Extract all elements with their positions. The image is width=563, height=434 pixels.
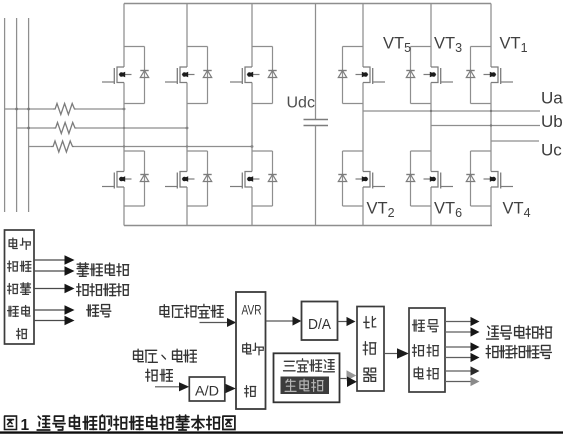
label ge-li-qu-dong-dian-lu vertical <box>413 320 439 380</box>
arrow from MCU box #1 <box>34 259 65 261</box>
label zheng-liu-dian-lu (rectifier circuit) <box>77 263 129 277</box>
drive output arrow #1 <box>445 321 471 323</box>
block: D/A converter <box>302 302 338 341</box>
freewheeling diode DV5 <box>338 47 346 104</box>
inverter bridge leg at x=491 upper wire <box>490 4 492 68</box>
inverter bridge leg at x=363 middle wire <box>362 83 364 172</box>
block: MCU-controlled rectifier circuit (vertical box) <box>5 230 35 344</box>
inverter bridge leg at x=363 upper wire <box>362 4 364 68</box>
arrowhead into comparator lower <box>347 377 357 388</box>
wire R2 to rectifier leg 2 <box>77 127 188 129</box>
node A1 <box>15 108 18 111</box>
bottom rule <box>0 431 563 433</box>
resistor R1 <box>53 104 76 115</box>
freewheeling diode D5 <box>203 151 211 206</box>
freewheeling diode DV2 <box>338 151 346 206</box>
rectifier bridge leg at x=187 upper wire <box>186 4 188 68</box>
output wire Uc <box>491 140 539 142</box>
freewheeling diode D4 <box>140 151 148 206</box>
label bi-jiao-qi vertical <box>363 317 376 382</box>
inverter bridge leg at x=431 lower wire <box>430 187 432 226</box>
block: triangle wave generator (san-jiao-bo-fa-sheng-dian-lu) <box>274 353 340 402</box>
caption: Fig.1 basic block diagram of inverter power supply hardware <box>5 416 17 429</box>
label jian-ce (detection) <box>146 369 173 381</box>
transistor Q6 (rectifier bottom-right) <box>230 151 273 206</box>
transistor VT2 <box>343 151 386 206</box>
rectifier bridge leg at x=187 middle wire <box>186 83 188 172</box>
inverter bridge leg at x=431 upper wire <box>430 4 432 68</box>
three-phase input line A (leftmost vertical) <box>4 18 6 212</box>
wire R1 to rectifier leg 1 <box>76 108 124 110</box>
arrowhead into A/D <box>179 382 189 391</box>
node B1 <box>27 127 30 130</box>
arrowhead ghost (grey) into comparator <box>347 370 357 380</box>
rectifier bridge leg at x=187 lower wire <box>186 187 188 226</box>
node C2 <box>186 145 188 147</box>
output wire Ub <box>431 125 540 127</box>
wire detection to A/D <box>155 386 179 388</box>
wire R3 to rectifier leg 3 <box>74 146 252 148</box>
arrowhead A/D to AVR <box>226 384 236 393</box>
wire AVR to D/A <box>266 320 293 322</box>
negative DC bus rail (bottom) <box>124 225 492 227</box>
freewheeling diode D6 <box>268 151 276 206</box>
label ni-bian-dian-lu-qu (inverter circuit drive) line1 <box>487 325 552 339</box>
drive output arrow #2 <box>445 331 471 333</box>
inverter bridge leg at x=363 lower wire <box>362 187 364 226</box>
block: isolation drive circuit (ge-li-qu-dong-dian-lu) <box>409 308 445 392</box>
label ji (machine) <box>245 386 256 397</box>
svg-text:Ub: Ub <box>541 112 563 131</box>
rectifier bridge leg at x=124 upper wire <box>123 4 125 68</box>
inverter bridge leg at x=431 middle wire <box>430 83 432 172</box>
drive output arrow #5 <box>445 370 471 372</box>
svg-text:D/A: D/A <box>308 317 331 333</box>
node Ua-leg3 crossing <box>490 110 492 112</box>
DC-link capacitor C1 upper wire <box>315 4 317 120</box>
transistor VT3 <box>411 47 454 104</box>
wire D/A to comparator <box>338 321 347 323</box>
transistor VT4 <box>471 151 514 206</box>
resistor R3 <box>51 141 74 152</box>
node Ua-leg2 crossing <box>430 110 432 112</box>
svg-text:Udc: Udc <box>287 95 315 112</box>
transistor Q2 (rectifier top-middle) <box>165 47 208 104</box>
block: comparator (bi-jiao-qi) <box>357 307 384 392</box>
output wire Ua <box>363 110 540 112</box>
label dong-mai-chong-xin-hao line2 <box>486 345 551 358</box>
block: A/D converter <box>189 377 225 401</box>
highlighted label sheng-dian-lu <box>281 377 330 395</box>
svg-text:A/D: A/D <box>195 383 219 399</box>
wire voltage-reference to AVR <box>200 322 228 324</box>
wire phase B to resistor R2 <box>17 127 54 129</box>
node Ub-leg3 crossing <box>490 124 492 126</box>
freewheeling diode DV6 <box>406 151 414 206</box>
arrow from MCU box #5 <box>34 320 65 322</box>
three-phase input line C <box>28 18 30 212</box>
arrow from MCU box #3 <box>34 288 65 290</box>
svg-text:Uc: Uc <box>541 141 562 160</box>
block: AVR microcontroller <box>236 292 266 409</box>
capacitor C1 plates <box>304 119 329 121</box>
transistor Q5 (rectifier bottom-middle) <box>165 151 208 206</box>
node A3 <box>123 108 126 111</box>
arrow from MCU box #2 <box>34 270 65 272</box>
inverter bridge leg at x=491 lower wire <box>490 187 492 226</box>
wire phase C to resistor R3 <box>29 146 51 148</box>
label dian-ya-dian-liu (voltage current) <box>134 349 197 362</box>
arrowhead into isolation driver <box>397 348 409 359</box>
positive DC bus rail (top) <box>124 3 491 5</box>
rectifier bridge leg at x=252 lower wire <box>251 187 253 226</box>
label xin-hao (signal) <box>87 305 111 317</box>
freewheeling diode D3 <box>268 47 276 104</box>
rectifier bridge leg at x=124 lower wire <box>123 187 125 226</box>
freewheeling diode D2 <box>203 47 211 104</box>
node C1 <box>123 145 125 147</box>
transistor Q4 (rectifier bottom-left) <box>102 151 145 206</box>
svg-text:Ua: Ua <box>541 89 563 108</box>
transistor Q3 (rectifier top-right) <box>230 47 273 104</box>
freewheeling diode D1 <box>140 47 148 104</box>
label dian-ya-gei-ding-zhi (voltage reference) <box>160 304 223 318</box>
rectifier bridge leg at x=252 upper wire <box>251 4 253 68</box>
transistor VT6 <box>411 151 454 206</box>
svg-text:AVR: AVR <box>242 303 262 318</box>
transistor VT5 <box>343 47 386 104</box>
transistor Q1 (rectifier top-left) <box>102 47 145 104</box>
wire comparator to isolation driver <box>384 353 397 355</box>
wire phase A to resistor R1 <box>5 108 53 110</box>
node B3 <box>186 127 189 130</box>
arrowhead into comparator <box>347 317 356 326</box>
transistor VT1 <box>471 47 514 104</box>
DC-link capacitor C1 lower wire <box>315 126 317 226</box>
label san-jiao-bo-fa <box>284 359 335 372</box>
freewheeling diode DV4 <box>466 151 474 206</box>
label dan-pian-ji (microcontroller) upper <box>243 343 264 355</box>
node A2 <box>27 108 30 111</box>
rectifier bridge leg at x=252 middle wire <box>251 83 253 172</box>
drive output arrow #6 <box>445 381 471 383</box>
node B2 <box>123 127 125 129</box>
arrowhead into AVR <box>227 318 236 327</box>
drive output arrow #4 <box>445 357 471 359</box>
label qu-dong-mai-chong (drive pulse) <box>77 284 129 296</box>
three-phase input line B <box>16 18 18 212</box>
resistor R2 <box>54 123 77 134</box>
freewheeling diode DV1 <box>466 47 474 104</box>
arrowhead into D/A <box>293 316 302 325</box>
rectifier bridge leg at x=124 middle wire <box>123 83 125 172</box>
wire triangle-generator to comparator <box>340 378 348 380</box>
arrow from MCU box #4 <box>34 309 65 311</box>
drive output arrow #3 <box>445 346 471 348</box>
freewheeling diode DV3 <box>406 47 414 104</box>
vertical text dan-pian-ji-kong-zhi-zheng-liu-dian-lu <box>8 238 31 339</box>
inverter bridge leg at x=491 middle wire <box>490 83 492 172</box>
node C3 <box>251 145 254 148</box>
